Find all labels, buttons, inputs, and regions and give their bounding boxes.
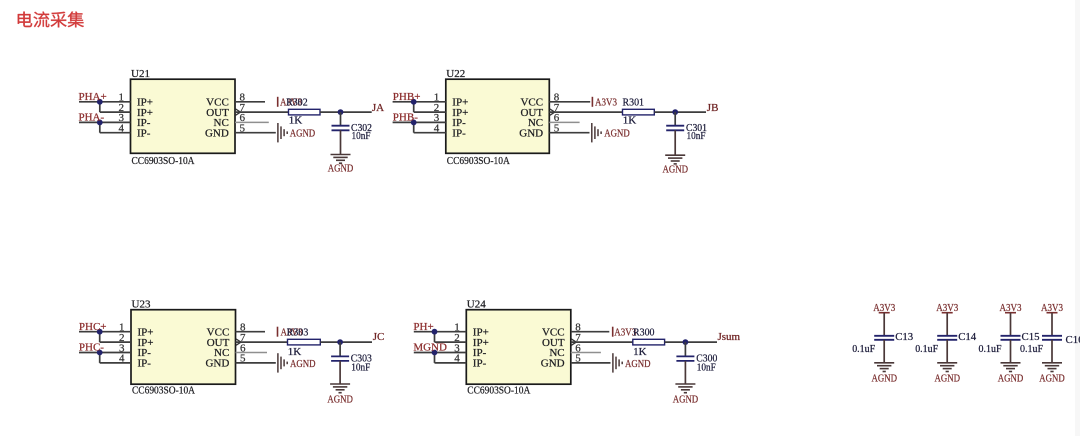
wire resistor to node JC — [320, 341, 372, 343]
power ground AGND (earth) — [675, 384, 695, 393]
IC U22 body — [446, 79, 550, 153]
wire U21 pin 5 to AGND — [235, 132, 276, 134]
wire U23 pin 7 to resistor — [236, 341, 288, 343]
capacitor C13 plates — [874, 336, 894, 340]
wire junction drop to pin 4 — [99, 122, 101, 132]
wire to U22 pin 2 — [414, 111, 446, 113]
svg-text:CC6903SO-10A: CC6903SO-10A — [132, 385, 195, 397]
power port A3V3 bar — [591, 97, 593, 107]
wire junction drop to pin 4 — [434, 353, 436, 363]
wire A3V3 to C15 — [1010, 313, 1012, 336]
junction on PHB- — [411, 120, 417, 126]
svg-text:PHC-: PHC- — [79, 342, 104, 354]
junction on MGND — [432, 350, 438, 356]
wire MGND to U24 pin 3 — [414, 352, 467, 354]
wire U24 pin 5 to AGND — [571, 362, 611, 364]
svg-text:R301: R301 — [623, 96, 645, 108]
svg-text:10nF: 10nF — [687, 130, 706, 142]
capacitor C16 plates — [1042, 336, 1062, 340]
power port A3V3 bar above C14 — [942, 312, 953, 314]
wire PH+ to U24 pin 1 — [414, 331, 467, 333]
svg-text:0.1uF: 0.1uF — [1020, 343, 1043, 355]
power port A3V3 bar — [612, 327, 614, 337]
svg-text:A3V3: A3V3 — [595, 96, 617, 108]
wire U22 pin 5 to AGND — [549, 132, 589, 134]
svg-text:C14: C14 — [958, 331, 976, 343]
svg-text:C16: C16 — [1066, 334, 1080, 346]
svg-text:JB: JB — [707, 102, 719, 114]
wire U23 pin 5 to AGND — [236, 362, 276, 364]
wire PHC- to U23 pin 3 — [79, 352, 131, 354]
capacitor C300 plates — [676, 356, 694, 361]
svg-text:1K: 1K — [289, 115, 303, 127]
wire C16 to AGND — [1051, 340, 1053, 363]
capacitor C303 plates — [331, 356, 349, 361]
power ground AGND (sideways) — [592, 123, 601, 142]
svg-text:1K: 1K — [623, 115, 637, 127]
U24 pin 7 output chevron — [571, 339, 576, 345]
capacitor C302 plates — [332, 126, 350, 131]
svg-text:PHA+: PHA+ — [79, 91, 107, 103]
svg-text:AGND: AGND — [625, 358, 651, 370]
wire C15 to AGND — [1010, 340, 1012, 363]
wire junction drop to pin 4 — [413, 122, 415, 132]
capacitor C15 plates — [1001, 336, 1021, 340]
svg-text:CC6903SO-10A: CC6903SO-10A — [447, 155, 510, 167]
wire resistor to node JA — [320, 111, 372, 113]
IC U23 body — [131, 310, 236, 385]
svg-text:GND: GND — [205, 127, 229, 139]
power ground AGND (earth) — [665, 155, 685, 164]
power port A3V3 bar above C13 — [879, 312, 890, 314]
svg-text:U24: U24 — [467, 299, 486, 311]
power ground AGND (earth) under C15 — [1001, 363, 1021, 372]
power port A3V3 bar above C15 — [1005, 312, 1016, 314]
svg-text:AGND: AGND — [290, 358, 316, 370]
junction node JB — [672, 109, 678, 115]
wire capacitor C301 to ground — [674, 130, 676, 155]
svg-text:PHC+: PHC+ — [79, 321, 107, 333]
svg-text:CC6903SO-10A: CC6903SO-10A — [467, 385, 530, 397]
resistor R301 body 1K — [623, 109, 655, 115]
svg-text:R300: R300 — [633, 326, 655, 338]
svg-text:IP-: IP- — [137, 127, 151, 139]
wire to U23 pin 4 — [100, 362, 131, 364]
wire A3V3 to C13 — [883, 313, 885, 336]
wire U22 pin 7 to resistor — [549, 111, 622, 113]
junction node Jsum — [683, 339, 689, 345]
svg-text:MGND: MGND — [413, 342, 447, 354]
wire U23 pin 8 to A3V3 — [236, 331, 266, 333]
wire junction drop to pin 4 — [99, 353, 101, 363]
svg-text:AGND: AGND — [663, 163, 689, 175]
svg-text:CC6903SO-10A: CC6903SO-10A — [132, 155, 195, 167]
wire C14 to AGND — [946, 340, 948, 363]
wire U21 pin 8 to A3V3 — [235, 101, 265, 103]
wire U21 pin 7 to resistor — [235, 111, 289, 113]
power ground AGND (sideways) — [278, 353, 287, 372]
wire node JC down to capacitor C303 — [339, 342, 341, 356]
U23 pin 7 output chevron — [236, 339, 241, 345]
wire U24 pin 8 to A3V3 — [571, 331, 610, 333]
wire node JA down to capacitor C302 — [340, 112, 342, 126]
junction on PHB+ — [411, 99, 417, 105]
wire to U24 pin 4 — [435, 362, 467, 364]
svg-text:AGND: AGND — [673, 393, 699, 405]
svg-text:Jsum: Jsum — [718, 331, 741, 343]
svg-text:AGND: AGND — [872, 373, 898, 385]
svg-text:10nF: 10nF — [351, 362, 370, 374]
svg-text:U22: U22 — [446, 68, 465, 80]
svg-text:IP-: IP- — [452, 127, 466, 139]
svg-text:JC: JC — [373, 331, 385, 343]
svg-text:C13: C13 — [895, 331, 913, 343]
svg-text:R302: R302 — [286, 96, 308, 108]
svg-text:GND: GND — [519, 127, 543, 139]
junction node JA — [338, 109, 344, 115]
U21 pin 6 no-connect stub — [235, 121, 269, 123]
capacitor C14 plates — [937, 336, 957, 340]
wire A3V3 to C14 — [946, 313, 948, 336]
svg-text:IP-: IP- — [138, 358, 152, 370]
wire U22 pin 8 to A3V3 — [549, 101, 590, 103]
IC U24 body — [466, 310, 571, 385]
right page edge shading — [1075, 0, 1080, 436]
wire PHA- to U21 pin 3 — [79, 121, 131, 123]
svg-text:AGND: AGND — [998, 373, 1024, 385]
wire node Jsum down to capacitor C300 — [684, 342, 686, 356]
wire to U24 pin 2 — [435, 341, 467, 343]
power port A3V3 bar above C16 — [1047, 312, 1058, 314]
svg-text:AGND: AGND — [1039, 373, 1065, 385]
power ground AGND (sideways) — [278, 123, 287, 142]
U21 pin 7 output chevron — [236, 109, 241, 115]
svg-text:AGND: AGND — [290, 128, 316, 140]
wire capacitor C300 to ground — [684, 361, 686, 384]
power ground AGND (earth) — [331, 155, 351, 164]
wire junction drop to pin 2 — [99, 332, 101, 342]
wire C13 to AGND — [883, 340, 885, 363]
U23 pin 6 no-connect stub — [236, 352, 268, 354]
resistor R300 body 1K — [633, 339, 665, 345]
wire to U22 pin 4 — [414, 132, 446, 134]
wire U24 pin 7 to resistor — [571, 341, 633, 343]
svg-text:0.1uF: 0.1uF — [852, 343, 875, 355]
svg-text:U21: U21 — [131, 68, 150, 80]
svg-text:R303: R303 — [287, 326, 309, 338]
svg-text:0.1uF: 0.1uF — [979, 343, 1002, 355]
capacitor C301 plates — [666, 126, 684, 131]
svg-text:AGND: AGND — [327, 393, 353, 405]
wire to U21 pin 4 — [100, 132, 131, 134]
power ground AGND (sideways) — [613, 353, 622, 372]
svg-text:0.1uF: 0.1uF — [915, 343, 938, 355]
wire A3V3 to C16 — [1051, 313, 1053, 336]
wire PHB- to U22 pin 3 — [393, 121, 446, 123]
wire resistor to node JB — [654, 111, 706, 113]
junction on PHA+ — [97, 99, 103, 105]
svg-text:GND: GND — [541, 358, 565, 370]
IC U21 body — [131, 79, 236, 153]
power ground AGND (earth) under C13 — [874, 363, 894, 372]
svg-text:U23: U23 — [132, 299, 151, 311]
junction on PHA- — [97, 120, 103, 126]
power port A3V3 bar — [277, 327, 279, 337]
U22 pin 7 output chevron — [550, 109, 555, 115]
svg-text:PHB+: PHB+ — [393, 91, 421, 103]
junction node JC — [337, 339, 343, 345]
wire junction drop to pin 2 — [434, 332, 436, 342]
power ground AGND (earth) — [330, 384, 350, 393]
wire to U21 pin 2 — [100, 111, 131, 113]
wire junction drop to pin 2 — [413, 102, 415, 112]
svg-text:JA: JA — [372, 102, 384, 114]
power ground AGND (earth) under C14 — [937, 363, 957, 372]
title 电流采集 — [18, 12, 84, 28]
junction on PH+ — [432, 329, 438, 335]
wire junction drop to pin 2 — [99, 102, 101, 112]
svg-text:1K: 1K — [288, 346, 302, 358]
svg-text:AGND: AGND — [328, 163, 354, 175]
svg-text:AGND: AGND — [935, 373, 961, 385]
wire PHC+ to U23 pin 1 — [79, 331, 131, 333]
U24 pin 6 no-connect stub — [571, 352, 601, 354]
wire PHA+ to U21 pin 1 — [79, 101, 131, 103]
svg-text:10nF: 10nF — [352, 130, 371, 142]
svg-text:PH+: PH+ — [413, 321, 433, 333]
junction on PHC+ — [97, 329, 103, 335]
wire PHB+ to U22 pin 1 — [393, 101, 446, 103]
svg-text:C15: C15 — [1022, 331, 1040, 343]
svg-text:1K: 1K — [633, 346, 647, 358]
wire capacitor C303 to ground — [339, 361, 341, 384]
wire node JB down to capacitor C301 — [674, 112, 676, 126]
power port A3V3 bar — [277, 97, 279, 107]
svg-text:AGND: AGND — [604, 128, 630, 140]
resistor R302 body 1K — [289, 109, 321, 115]
svg-text:PHB-: PHB- — [393, 112, 418, 124]
wire to U23 pin 2 — [100, 341, 131, 343]
wire resistor to node Jsum — [665, 341, 717, 343]
svg-text:GND: GND — [205, 358, 229, 370]
svg-text:IP-: IP- — [473, 358, 487, 370]
resistor R303 body 1K — [288, 339, 321, 345]
junction on PHC- — [97, 350, 103, 356]
U22 pin 6 no-connect stub — [549, 121, 579, 123]
svg-text:10nF: 10nF — [697, 362, 716, 374]
wire capacitor C302 to ground — [340, 130, 342, 154]
power ground AGND (earth) under C16 — [1042, 363, 1062, 372]
svg-text:PHA-: PHA- — [79, 112, 105, 124]
